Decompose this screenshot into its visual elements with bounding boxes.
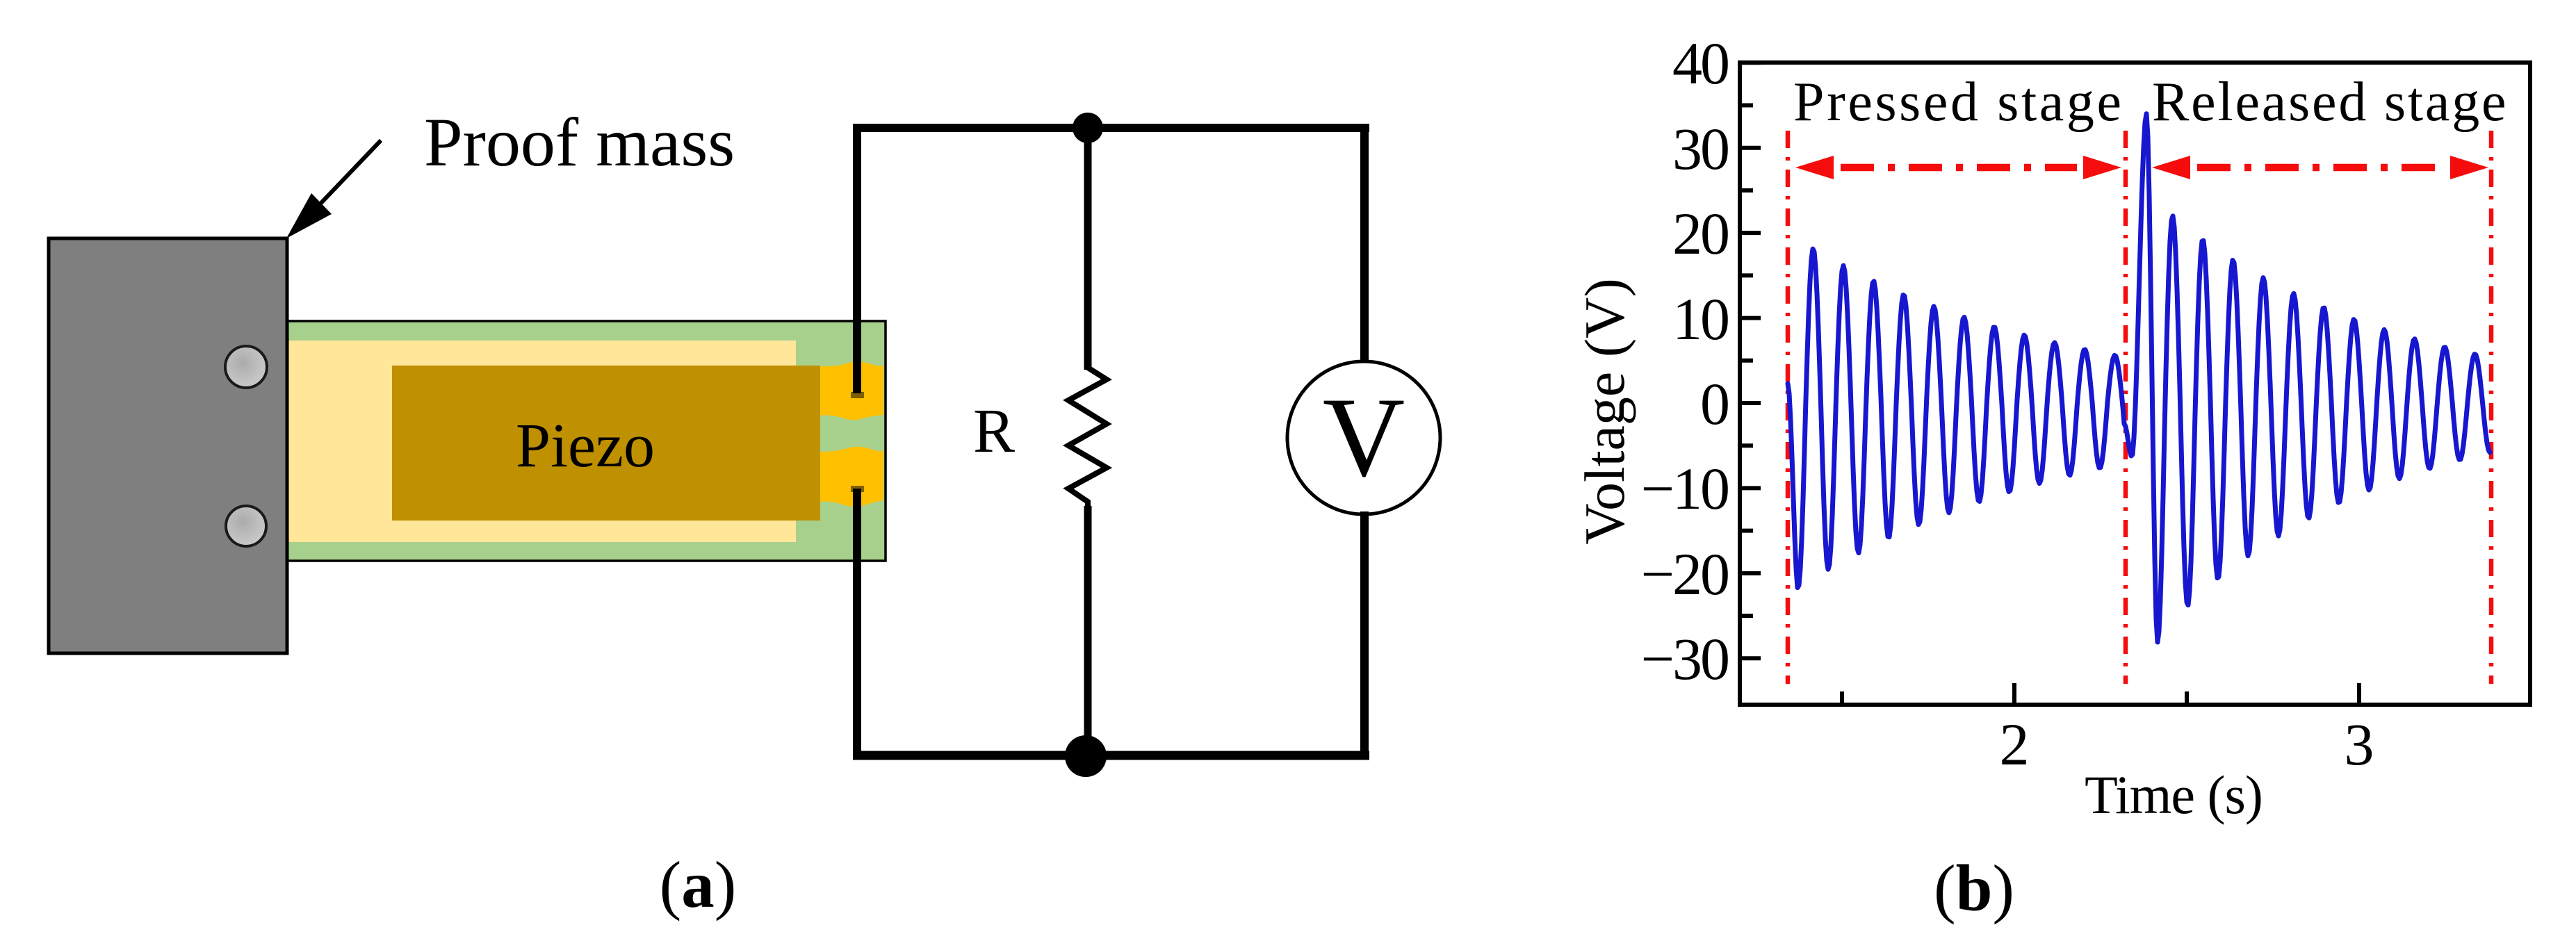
svg-text:Pressed stage: Pressed stage <box>1793 72 2124 133</box>
svg-text:V: V <box>1323 375 1405 500</box>
proof mass block <box>49 238 287 653</box>
beam inner shim layer (cream) <box>287 341 796 542</box>
svg-text:40: 40 <box>1672 30 1728 97</box>
svg-text:R: R <box>973 397 1015 466</box>
svg-text:−30: −30 <box>1640 625 1728 692</box>
svg-text:30: 30 <box>1672 115 1728 182</box>
wire top horizontal <box>853 124 1369 132</box>
wire left upper segment (top electrode lead) <box>853 124 861 393</box>
released stage span arrow (red dash-dot, double headed) <box>2152 156 2488 179</box>
svg-text:Piezo: Piezo <box>516 411 655 480</box>
red boundary line right <box>2489 131 2494 684</box>
top electrode wire tip shadow <box>851 392 864 398</box>
x axis major ticks <box>2014 683 2359 703</box>
bottom electrode (orange) <box>820 447 883 507</box>
wire left lower segment (bottom electrode lead) <box>853 489 861 760</box>
bottom electrode wire tip shadow <box>851 486 864 492</box>
svg-text:−10: −10 <box>1640 455 1728 522</box>
svg-text:(a): (a) <box>660 848 737 922</box>
node bottom junction <box>1065 735 1107 777</box>
svg-text:Proof mass: Proof mass <box>424 104 735 181</box>
red boundary line left <box>1786 131 1791 684</box>
wire right upper segment <box>1360 128 1369 366</box>
svg-text:−20: −20 <box>1640 541 1728 607</box>
svg-text:Time (s): Time (s) <box>2085 764 2263 825</box>
y axis major ticks <box>1742 63 1761 658</box>
bolt 2 <box>226 506 266 546</box>
pressed stage span arrow (red dash-dot, double headed) <box>1795 156 2121 179</box>
wire right lower segment <box>1360 511 1369 755</box>
wire bottom horizontal <box>853 751 1369 760</box>
x axis minor ticks <box>1842 691 2187 703</box>
svg-text:10: 10 <box>1672 286 1728 352</box>
resistor R upper lead wire <box>1084 128 1092 370</box>
voltmeter U1 body circle <box>1287 361 1440 514</box>
node top junction <box>1073 113 1103 143</box>
svg-text:2: 2 <box>2000 711 2030 778</box>
resistor R zigzag body <box>1068 368 1107 507</box>
y tick labels <box>1640 30 1728 692</box>
svg-text:3: 3 <box>2345 711 2374 778</box>
voltage waveform (blue) <box>1788 114 2490 642</box>
svg-text:(b): (b) <box>1934 851 2014 925</box>
x tick labels <box>2000 711 2374 778</box>
red boundary line middle <box>2123 131 2128 684</box>
plot frame <box>1740 63 2530 705</box>
svg-text:0: 0 <box>1700 370 1728 437</box>
svg-text:20: 20 <box>1672 200 1728 267</box>
y axis minor ticks <box>1742 106 1753 616</box>
bolt 1 <box>225 346 267 388</box>
cantilever beam substrate (green) <box>287 321 886 561</box>
piezo layer <box>392 366 820 521</box>
svg-text:Voltage (V): Voltage (V) <box>1573 278 1636 544</box>
proof mass pointer arrow <box>286 140 381 238</box>
top electrode (orange) <box>820 362 883 420</box>
resistor R lower lead wire <box>1084 506 1092 755</box>
svg-text:Released stage: Released stage <box>2152 72 2508 133</box>
